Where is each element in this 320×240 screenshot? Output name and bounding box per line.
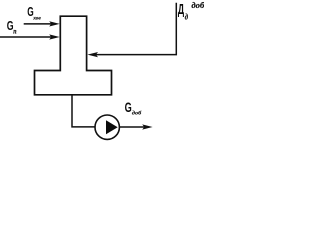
- arrowhead G_hov: [49, 21, 60, 26]
- wire: pump outlet line: [119, 126, 145, 128]
- arrowhead G_dob: [142, 124, 152, 129]
- wire: tank drain pipe to pump: [72, 95, 95, 127]
- wire: G_hov inlet line: [24, 23, 52, 25]
- arrowhead G_p: [49, 34, 60, 39]
- svg-text:д: д: [185, 12, 188, 22]
- deaerator vessel (column on tank): [35, 16, 112, 95]
- wire: D_d^dob feed (vertical drop): [95, 3, 176, 55]
- svg-text:Д: Д: [178, 1, 185, 18]
- svg-text:G: G: [125, 101, 132, 115]
- svg-text:хов: хов: [32, 16, 41, 22]
- wire: G_p inlet line: [0, 36, 52, 38]
- pump P1 (circle): [95, 115, 119, 139]
- arrowhead D_d^dob: [87, 52, 98, 57]
- svg-text:доб: доб: [132, 110, 142, 117]
- svg-text:доб: доб: [191, 0, 204, 10]
- pump impeller triangle: [106, 120, 118, 134]
- svg-text:п: п: [13, 28, 16, 36]
